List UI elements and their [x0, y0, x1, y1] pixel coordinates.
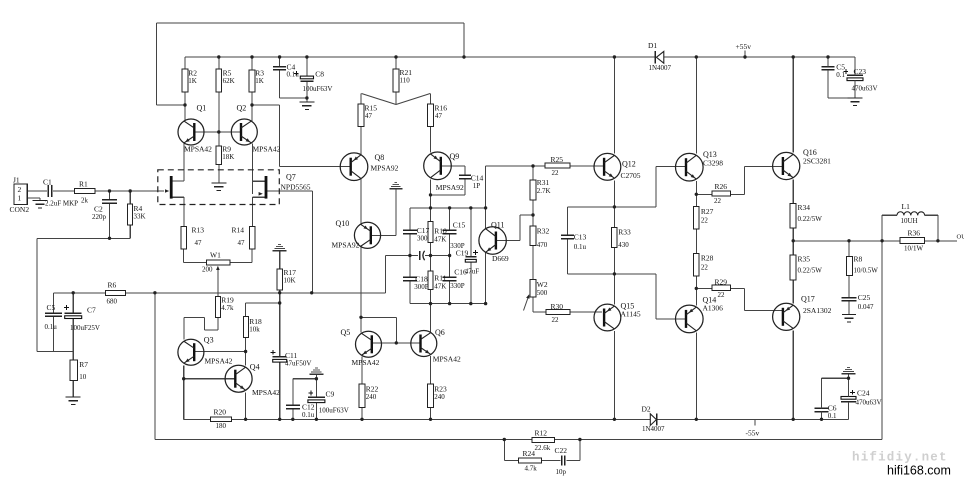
svg-text:MPSA92: MPSA92 [332, 241, 360, 250]
svg-text:R10: R10 [434, 227, 447, 236]
svg-text:10/0.5W: 10/0.5W [854, 266, 879, 274]
svg-text:2SC3281: 2SC3281 [803, 157, 831, 166]
svg-text:C24: C24 [857, 388, 870, 397]
svg-text:J1: J1 [13, 176, 20, 185]
svg-text:C11: C11 [285, 351, 297, 360]
svg-text:47: 47 [435, 112, 443, 120]
svg-text:240: 240 [434, 393, 445, 401]
svg-text:C7: C7 [87, 306, 96, 315]
svg-text:C16: C16 [454, 267, 467, 276]
svg-text:A1145: A1145 [621, 310, 641, 319]
svg-text:240: 240 [366, 393, 377, 401]
svg-text:R4: R4 [134, 204, 143, 213]
svg-text:R8: R8 [854, 255, 863, 264]
svg-text:R27: R27 [701, 207, 714, 216]
svg-text:R19: R19 [221, 295, 234, 304]
svg-text:0.1: 0.1 [828, 412, 837, 420]
svg-text:R29: R29 [715, 278, 728, 287]
svg-text:R5: R5 [223, 68, 232, 77]
svg-text:10UH: 10UH [901, 217, 918, 225]
svg-text:18K: 18K [222, 153, 234, 161]
svg-text:C25: C25 [858, 293, 871, 302]
svg-text:R30: R30 [551, 302, 564, 311]
svg-text:hifi168.com: hifi168.com [887, 464, 951, 478]
svg-text:R1: R1 [79, 180, 88, 189]
svg-text:47uF50V: 47uF50V [285, 360, 311, 368]
svg-text:Q16: Q16 [803, 148, 817, 157]
svg-text:0.1u: 0.1u [287, 70, 300, 78]
svg-text:1K: 1K [255, 77, 264, 85]
svg-text:Q6: Q6 [435, 328, 445, 337]
svg-text:D669: D669 [492, 254, 509, 263]
svg-text:Q8: Q8 [375, 153, 385, 162]
svg-text:100uF63V: 100uF63V [303, 85, 333, 93]
svg-text:Q11: Q11 [491, 220, 504, 229]
svg-text:47: 47 [195, 239, 203, 247]
svg-text:470u63V: 470u63V [856, 398, 882, 406]
svg-text:C12: C12 [302, 403, 315, 412]
svg-text:2.7K: 2.7K [537, 187, 551, 195]
svg-text:22: 22 [701, 217, 709, 225]
svg-text:470u63V: 470u63V [852, 85, 878, 93]
svg-text:CON2: CON2 [10, 205, 30, 214]
svg-text:22: 22 [714, 197, 722, 205]
svg-text:R6: R6 [108, 280, 117, 289]
svg-text:MPSA42: MPSA42 [433, 354, 461, 363]
svg-text:1K: 1K [188, 77, 197, 85]
svg-text:0.1u: 0.1u [45, 323, 58, 331]
svg-text:NPD5565: NPD5565 [281, 183, 311, 192]
svg-text:W1: W1 [210, 251, 221, 260]
svg-text:MPSA42: MPSA42 [184, 145, 212, 154]
svg-text:R12: R12 [535, 429, 548, 438]
svg-text:10: 10 [79, 373, 87, 381]
svg-text:C3298: C3298 [703, 159, 723, 168]
svg-text:C2705: C2705 [621, 171, 641, 180]
svg-text:1: 1 [18, 194, 22, 203]
svg-text:10p: 10p [556, 468, 567, 476]
svg-text:33K: 33K [134, 213, 146, 221]
svg-text:R26: R26 [715, 182, 728, 191]
svg-text:C13: C13 [574, 233, 587, 242]
svg-text:L1: L1 [902, 202, 911, 211]
svg-text:4.7k: 4.7k [221, 304, 234, 312]
svg-text:R9: R9 [222, 145, 231, 154]
svg-text:MPSA42: MPSA42 [205, 357, 233, 366]
svg-text:0.22/5W: 0.22/5W [798, 215, 823, 223]
svg-text:R24: R24 [523, 449, 536, 458]
svg-text:Q10: Q10 [336, 219, 350, 228]
svg-text:C1: C1 [43, 178, 52, 187]
svg-text:R35: R35 [798, 255, 811, 264]
svg-text:hifidiy.net: hifidiy.net [852, 451, 948, 465]
svg-text:R17: R17 [284, 268, 297, 277]
svg-text:R25: R25 [551, 155, 564, 164]
svg-text:C5: C5 [47, 303, 56, 312]
svg-text:R3: R3 [255, 68, 264, 77]
svg-text:R20: R20 [214, 408, 227, 417]
svg-text:C8: C8 [315, 69, 324, 78]
svg-text:Q7: Q7 [286, 173, 296, 182]
svg-text:10K: 10K [284, 277, 296, 285]
svg-text:D1: D1 [648, 41, 657, 50]
svg-text:220p: 220p [92, 213, 107, 221]
svg-text:62K: 62K [223, 77, 235, 85]
svg-text:R11: R11 [434, 274, 446, 283]
svg-text:680: 680 [107, 297, 118, 305]
svg-text:1P: 1P [473, 182, 481, 190]
svg-text:0.1: 0.1 [836, 71, 845, 79]
svg-text:R14: R14 [232, 226, 245, 235]
svg-text:R28: R28 [701, 254, 714, 263]
svg-text:0.047: 0.047 [858, 303, 874, 311]
svg-text:R34: R34 [798, 203, 811, 212]
svg-text:110: 110 [400, 77, 411, 85]
svg-text:0.1u: 0.1u [574, 243, 587, 251]
svg-text:100uF25V: 100uF25V [70, 324, 100, 332]
svg-text:Q9: Q9 [450, 152, 460, 161]
svg-text:22: 22 [552, 316, 560, 324]
svg-text:Q4: Q4 [250, 363, 260, 372]
svg-text:0.22/5W: 0.22/5W [798, 266, 823, 274]
svg-text:47: 47 [365, 112, 373, 120]
svg-text:C23: C23 [854, 67, 867, 76]
svg-text:4.7k: 4.7k [525, 464, 538, 472]
svg-text:2k: 2k [81, 197, 89, 205]
svg-text:500: 500 [537, 289, 548, 297]
svg-text:-55v: -55v [746, 429, 760, 438]
svg-text:300: 300 [417, 235, 428, 243]
svg-text:47K: 47K [434, 282, 446, 290]
svg-text:100uF63V: 100uF63V [319, 406, 349, 414]
svg-text:430: 430 [618, 241, 629, 249]
svg-text:R33: R33 [618, 228, 631, 237]
svg-text:47K: 47K [434, 235, 446, 243]
svg-text:MPSA92: MPSA92 [436, 183, 464, 192]
svg-text:OUT: OUT [957, 234, 964, 241]
svg-text:+55v: +55v [736, 42, 752, 51]
svg-text:200: 200 [202, 265, 213, 273]
svg-text:10/1W: 10/1W [904, 245, 923, 253]
svg-text:MPSA42: MPSA42 [352, 358, 380, 367]
svg-text:W2: W2 [537, 280, 548, 289]
svg-text:MPSA42: MPSA42 [252, 388, 280, 397]
svg-text:C2: C2 [94, 205, 103, 214]
svg-text:C22: C22 [555, 446, 568, 455]
svg-text:47: 47 [238, 239, 246, 247]
svg-text:A1306: A1306 [703, 304, 724, 313]
svg-text:Q5: Q5 [341, 328, 351, 337]
svg-text:C9: C9 [326, 390, 335, 399]
svg-text:MPSA92: MPSA92 [371, 164, 399, 173]
svg-text:Q3: Q3 [204, 336, 214, 345]
svg-text:Q1: Q1 [197, 104, 207, 113]
svg-text:R2: R2 [188, 68, 197, 77]
svg-text:22.6k: 22.6k [535, 444, 551, 452]
svg-text:R7: R7 [79, 360, 88, 369]
svg-text:10k: 10k [249, 326, 260, 334]
svg-text:1N4007: 1N4007 [649, 64, 672, 72]
svg-text:47uF: 47uF [465, 268, 480, 276]
svg-text:22: 22 [718, 291, 726, 299]
svg-text:D2: D2 [642, 404, 651, 413]
svg-text:22: 22 [552, 169, 560, 177]
svg-text:1N4007: 1N4007 [642, 425, 665, 433]
svg-text:470: 470 [537, 241, 548, 249]
svg-text:Q12: Q12 [622, 160, 636, 169]
svg-text:R18: R18 [249, 317, 262, 326]
svg-text:C19: C19 [456, 248, 469, 257]
svg-text:R36: R36 [908, 228, 921, 237]
svg-text:180: 180 [216, 422, 227, 430]
svg-text:2.2uF MKP: 2.2uF MKP [45, 200, 78, 208]
svg-text:R21: R21 [400, 68, 413, 77]
svg-text:Q2: Q2 [237, 104, 247, 113]
svg-text:C15: C15 [453, 220, 466, 229]
svg-text:300P: 300P [414, 283, 429, 291]
svg-text:0.1u: 0.1u [302, 411, 315, 419]
svg-text:Q17: Q17 [801, 295, 815, 304]
svg-text:R13: R13 [192, 226, 205, 235]
svg-text:2SA1302: 2SA1302 [803, 306, 832, 315]
svg-text:22: 22 [701, 263, 709, 271]
svg-text:330P: 330P [450, 282, 465, 290]
svg-text:MPSA42: MPSA42 [253, 145, 281, 154]
svg-text:R32: R32 [537, 227, 550, 236]
